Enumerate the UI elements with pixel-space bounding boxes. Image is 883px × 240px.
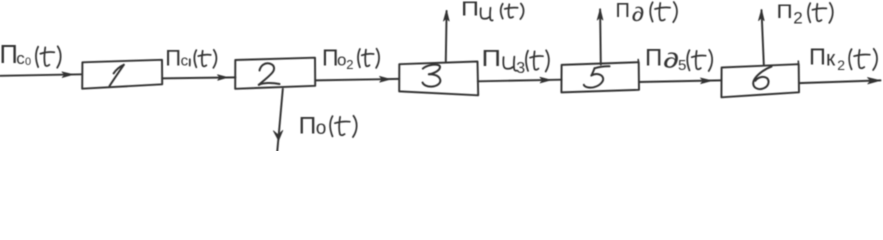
svg-text:П: П — [616, 0, 630, 22]
svg-text:П: П — [809, 44, 826, 70]
digit 3 inside block 3 — [423, 65, 441, 87]
svg-text:2: 2 — [793, 8, 802, 27]
wire block1 to block2 — [162, 75, 235, 80]
wire block3 to block5 — [478, 77, 562, 83]
node label Pc0(t) input — [0, 41, 61, 69]
block 6 — [721, 64, 799, 97]
wire arrow up from block5 — [597, 9, 603, 64]
svg-text:П: П — [461, 0, 479, 20]
node label Pk2(t) output — [809, 44, 877, 73]
svg-text:о: о — [337, 51, 346, 70]
node label Po(t) below block2 — [299, 113, 357, 140]
wire block2 to block3 — [316, 76, 400, 82]
svg-text:c: c — [16, 49, 25, 68]
svg-text:П: П — [0, 41, 18, 69]
svg-text:2: 2 — [837, 57, 845, 73]
node label Pc(t) above block3 — [461, 0, 524, 20]
svg-text:3: 3 — [516, 60, 525, 77]
node label Pc1(t) — [165, 46, 216, 71]
svg-text:П: П — [165, 46, 181, 71]
svg-text:П: П — [482, 46, 502, 72]
svg-text:5: 5 — [678, 57, 686, 74]
wire arrow up from block6 — [759, 10, 765, 65]
block 1 — [82, 60, 162, 89]
block 2 — [235, 58, 315, 89]
digit 6 inside block 6 — [753, 67, 771, 90]
svg-text:∂: ∂ — [663, 49, 679, 73]
svg-text:∂: ∂ — [632, 3, 644, 25]
block 5 — [561, 62, 639, 92]
block 3 — [399, 62, 478, 96]
node label Pc3(t) — [482, 46, 549, 77]
svg-text:к: к — [826, 47, 836, 70]
wire block5 to block6 — [639, 78, 721, 84]
wire input arrow into block 1 — [0, 72, 82, 78]
svg-text:c: c — [181, 53, 189, 70]
node label P2(t) above block6 — [777, 1, 833, 27]
svg-text:о: о — [316, 118, 327, 139]
wire arrow up from block3 — [444, 10, 450, 61]
digit 2 inside block 2 — [259, 63, 280, 85]
digit 5 inside block 5 — [584, 66, 610, 87]
svg-text:2: 2 — [346, 57, 353, 72]
svg-text:П: П — [777, 1, 793, 22]
digit 1 inside block 1 — [110, 65, 124, 86]
svg-text:0: 0 — [25, 56, 31, 68]
node label Pd(t) above block5 — [616, 0, 677, 25]
svg-text:П: П — [645, 44, 662, 71]
wire output arrow from block6 — [799, 78, 881, 84]
svg-text:П: П — [299, 113, 317, 140]
wire block2 down output — [273, 89, 282, 151]
node label Po2(t) — [322, 45, 379, 73]
node label Pd5(t) — [645, 44, 712, 74]
